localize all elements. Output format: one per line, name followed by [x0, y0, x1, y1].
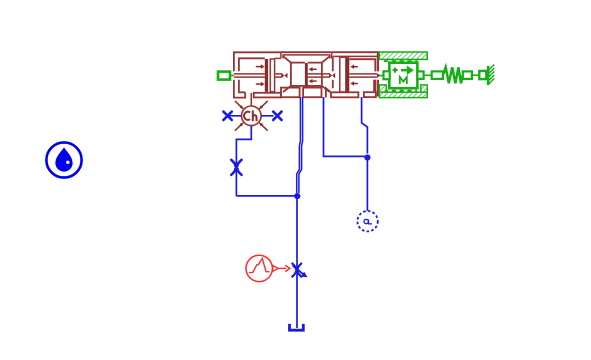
wire valve port A (double) to junction	[297, 97, 303, 193]
Ch arrow bottom-right	[258, 122, 267, 131]
link mass to spring	[424, 74, 432, 76]
fluid properties icon (droplet)	[46, 142, 81, 177]
fixed wall	[488, 65, 494, 86]
spool land 2 (solid)	[305, 63, 308, 88]
flow arrow left lower (middle)	[309, 79, 317, 84]
wire junction to variable orifice	[296, 196, 298, 328]
chamber shoulders and walls	[283, 56, 291, 92]
middle bottom pocket boxes	[281, 88, 322, 98]
orifice R1 (fixed)	[231, 160, 241, 175]
bottom guide hatched blocks	[379, 85, 386, 92]
signal arrowhead	[285, 265, 289, 271]
signal source (piecewise)	[246, 255, 272, 281]
bottom bar	[331, 92, 358, 97]
signal waveform	[249, 258, 269, 272]
signal wire	[278, 267, 286, 269]
spring zigzag	[443, 67, 463, 83]
rod segment right with tip	[349, 74, 377, 77]
rod joint 1 (bowtie)	[281, 73, 287, 78]
rod link to mass (green)	[380, 75, 384, 77]
Ch arrow top-right	[258, 101, 267, 110]
rod segment middle-right	[308, 74, 329, 77]
wire junction to sensor a	[366, 158, 368, 211]
spool land 1 (solid)	[265, 59, 268, 92]
rod joint 2 (bowtie)	[329, 73, 335, 78]
flow arrow right lower	[256, 82, 265, 87]
flow arrow left upper (right section)	[350, 64, 358, 69]
mass M block	[389, 63, 417, 88]
sensor a (zero-flow)	[357, 211, 377, 231]
wire valve port C to sensor junction	[362, 97, 368, 154]
valve right spool section	[326, 52, 379, 97]
spool plate 1	[270, 59, 274, 92]
plug X right of Ch	[273, 112, 281, 120]
junction node 1	[294, 193, 300, 199]
plug P (green) on valve rod left	[218, 72, 234, 80]
bottom-left notch	[326, 88, 331, 97]
signal output port triangle	[273, 265, 278, 271]
end stop square	[479, 71, 486, 79]
bottom second bar	[364, 92, 376, 97]
plus sign	[393, 68, 398, 73]
stub valve to chamber Ch	[250, 93, 252, 106]
mass label M	[400, 77, 407, 84]
chamber Ch label	[244, 110, 257, 121]
rising wall	[373, 80, 376, 93]
wire Ch bottom to orifice R1	[236, 126, 251, 196]
sleeve inner ceiling segment	[275, 57, 281, 59]
wire valve port B to sensor junction	[324, 97, 365, 156]
flow arrow right upper	[256, 64, 265, 69]
valve left piston section (sleeve outline)	[234, 52, 281, 97]
rod segment to joint	[275, 74, 282, 77]
mass right port square	[417, 71, 423, 79]
Ch arrow bottom-left	[235, 122, 244, 131]
variable orifice control arrow	[293, 266, 308, 278]
variable orifice R2	[292, 264, 301, 277]
bottom contact dashes	[384, 90, 417, 92]
Ch left line	[230, 115, 242, 117]
Ch right line	[261, 115, 273, 117]
top beam	[332, 51, 379, 53]
piston rod left	[234, 74, 265, 77]
top contact dashes	[384, 60, 418, 62]
spring left pad	[432, 71, 443, 79]
spool plate 2	[340, 57, 346, 92]
mass arrow	[401, 67, 413, 74]
flow arrow left lower (right section)	[350, 81, 358, 86]
chamber Ch circle	[242, 106, 262, 126]
top guide hatched block	[379, 52, 427, 59]
spool land 3 (solid)	[346, 57, 349, 92]
spring right pad	[463, 71, 472, 79]
inner ceiling right	[350, 59, 376, 71]
wire orifice R1 to junction	[236, 195, 294, 197]
flow arrow left upper (middle)	[309, 67, 317, 72]
junction node 2	[364, 154, 370, 160]
outer right wall	[377, 52, 379, 71]
top beam	[281, 51, 332, 53]
valve middle chamber section	[281, 52, 332, 92]
link spring to wall	[472, 74, 479, 76]
Ch arrow top-left	[235, 101, 244, 110]
left wall	[332, 56, 334, 71]
tank	[290, 324, 304, 330]
mass left port square	[384, 71, 390, 79]
plug X left of Ch	[223, 112, 231, 120]
